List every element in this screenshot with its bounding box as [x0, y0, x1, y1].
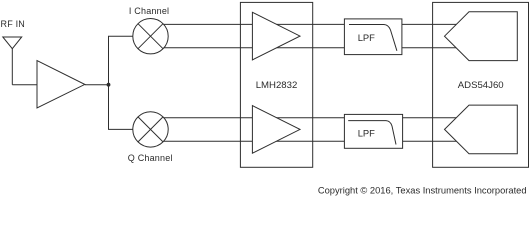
- block ADS54J60: [433, 2, 529, 167]
- svg-text:RF IN: RF IN: [1, 19, 26, 29]
- mixer I (circle with X): [133, 19, 168, 54]
- LPF box Q path: [344, 114, 402, 148]
- wire antenna to amplifier: [12, 84, 37, 86]
- wire differential Q+ mixer to ADC: [164, 117, 459, 119]
- svg-text:Copyright © 2016, Texas Instru: Copyright © 2016, Texas Instruments Inco…: [318, 185, 527, 195]
- svg-text:LMH2832: LMH2832: [256, 80, 298, 91]
- wire differential I+ mixer to ADC: [164, 23, 459, 25]
- wire branch vertical: [109, 36, 133, 129]
- svg-text:I Channel: I Channel: [129, 6, 169, 16]
- amplifier U1A (inside LMH2832, I path): [252, 12, 300, 60]
- wire amplifier to node: [85, 84, 109, 86]
- svg-text:ADS54J60: ADS54J60: [458, 80, 504, 91]
- ADC symbol Q (pentagon): [445, 105, 518, 154]
- wire differential I- mixer to ADC: [164, 47, 458, 49]
- svg-text:LPF: LPF: [358, 128, 375, 139]
- wire differential Q- mixer to ADC: [164, 140, 458, 142]
- svg-text:Q Channel: Q Channel: [128, 153, 173, 163]
- ADC symbol I (pentagon): [445, 12, 518, 61]
- mixer Q (circle with X): [133, 112, 168, 147]
- node junction dot: [107, 83, 111, 87]
- antenna: [3, 37, 22, 85]
- amplifier A1: [37, 61, 85, 109]
- amplifier U1B (inside LMH2832, Q path): [252, 106, 300, 154]
- svg-text:LPF: LPF: [358, 32, 375, 43]
- block LMH2832: [240, 2, 312, 167]
- LPF box I path: [344, 19, 402, 55]
